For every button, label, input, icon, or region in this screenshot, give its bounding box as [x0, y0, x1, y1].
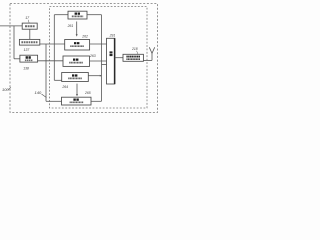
box 263 — [63, 56, 90, 66]
outer dashed box 100 — [10, 4, 158, 113]
wire input from left — [0, 25, 22, 27]
box 262 text line1 bold — [74, 42, 80, 44]
inner dashed box 140 — [50, 7, 148, 108]
tx box text line1 — [126, 56, 140, 58]
box 17 card reader — [22, 23, 37, 29]
wire gate to tx box — [115, 57, 123, 59]
wire box137 right to bus — [40, 43, 65, 45]
svg-text:263: 263 — [89, 54, 96, 58]
antenna arms — [149, 47, 154, 53]
wire into box 265 — [46, 100, 62, 102]
box 138 text line2 — [25, 59, 33, 61]
svg-text:291: 291 — [109, 33, 116, 37]
wire bus to box264 — [54, 79, 61, 81]
box 261 valid check — [68, 11, 87, 19]
svg-text:138: 138 — [23, 66, 29, 70]
wire bus to box261 — [54, 14, 68, 16]
gate box glyph1 — [110, 51, 113, 53]
svg-text:218: 218 — [131, 47, 138, 51]
box 137 — [19, 39, 39, 45]
wire box138 right to box263 — [38, 60, 63, 62]
wire branch down to box 138 — [13, 26, 15, 59]
svg-text:265: 265 — [84, 91, 91, 95]
wire box263 out — [90, 60, 107, 62]
tx box — [123, 54, 143, 61]
gate box tall — [107, 38, 115, 84]
svg-text:137: 137 — [24, 48, 30, 52]
box 265 — [62, 97, 92, 105]
leader arrow for 100 — [8, 87, 11, 89]
wire into box 138 — [14, 58, 20, 60]
svg-text:261: 261 — [67, 24, 74, 28]
stub into gate box — [102, 64, 107, 66]
wire box262 out — [90, 43, 107, 45]
wire box261 out — [87, 14, 102, 16]
svg-text:262: 262 — [81, 34, 88, 38]
arrow box261 to box262 — [76, 22, 78, 35]
box 17 text — [25, 25, 35, 27]
svg-text:140: 140 — [35, 90, 42, 95]
wire tx box to antenna — [143, 59, 152, 61]
box 264 text line1 bold — [72, 74, 78, 76]
antenna stem — [151, 53, 153, 61]
box 265 text line2 — [70, 101, 84, 103]
box 264 — [62, 73, 89, 82]
svg-text:264: 264 — [61, 85, 68, 89]
box 263 text line1 bold — [73, 58, 79, 60]
leader arrow for 140 — [42, 94, 47, 98]
wire box265 out — [91, 100, 102, 102]
box 263 text line2 — [69, 62, 83, 64]
box 262 — [65, 40, 90, 51]
collector bus vertical — [101, 15, 103, 102]
tx box text line2 — [126, 58, 140, 60]
box 262 text line2 — [70, 45, 84, 47]
box 138 — [20, 55, 38, 62]
bus vertical inside inner box — [53, 15, 55, 81]
gate box glyph2 — [110, 54, 113, 56]
leader tick 17 — [28, 20, 29, 23]
arrow box264 to box265 — [76, 84, 78, 95]
box 264 text line2 — [68, 77, 82, 79]
gate box thick right edge — [114, 38, 116, 84]
wire box17 down to box137 — [29, 29, 31, 39]
box 265 text line1 bold — [73, 98, 79, 100]
box 261 text line1 bold — [75, 13, 81, 15]
box 137 text — [21, 41, 38, 43]
box 261 text line2 — [72, 15, 83, 17]
leader tick 218 — [137, 51, 138, 54]
box 138 text line1 bold — [26, 56, 32, 58]
wire down-feed to box 265 — [45, 44, 47, 101]
wire box264 out — [88, 75, 101, 77]
